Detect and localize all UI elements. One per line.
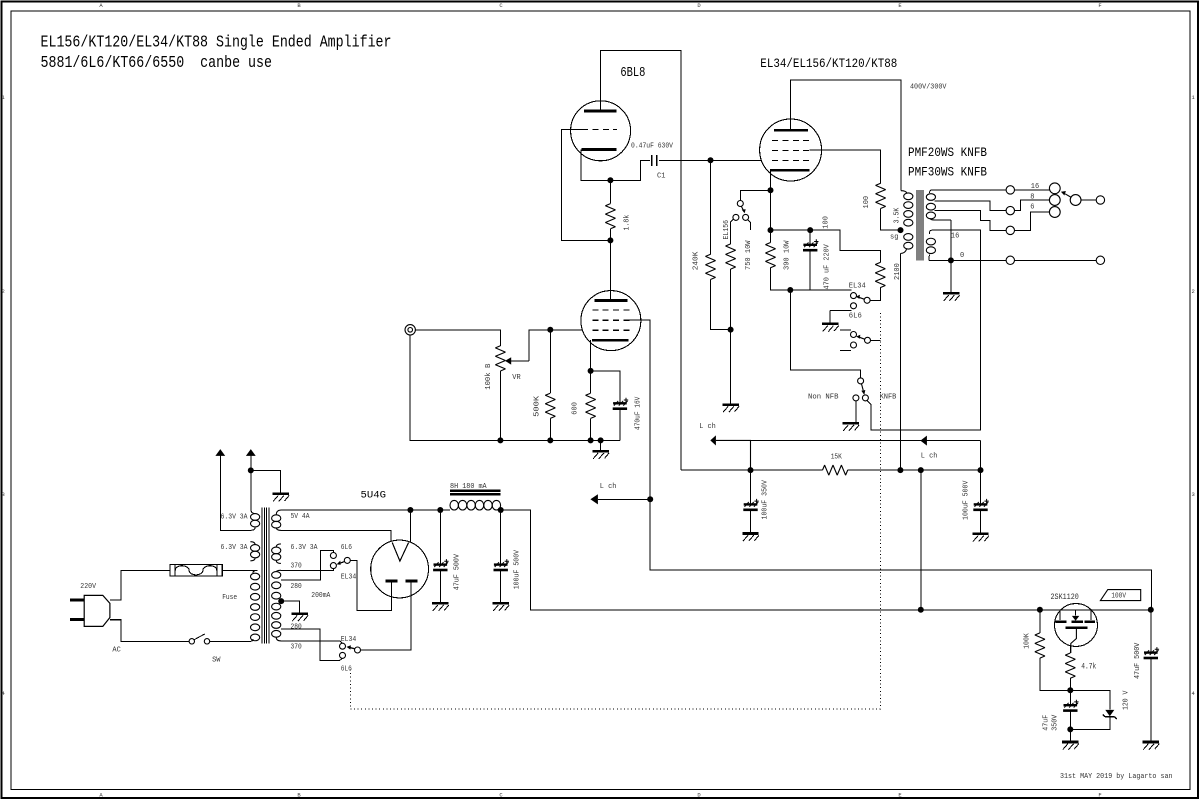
svg-text:47uF 500V: 47uF 500V xyxy=(1134,642,1142,679)
svg-text:L ch: L ch xyxy=(699,423,716,431)
svg-text:4.7k: 4.7k xyxy=(1081,663,1096,672)
svg-text:AC: AC xyxy=(112,646,121,654)
svg-text:280: 280 xyxy=(291,624,303,632)
svg-text:5V 4A: 5V 4A xyxy=(291,513,310,521)
svg-text:0: 0 xyxy=(960,252,965,260)
svg-text:2: 2 xyxy=(2,288,5,295)
svg-text:470uF 16V: 470uF 16V xyxy=(635,396,643,430)
svg-text:100uF 500V: 100uF 500V xyxy=(962,480,970,520)
svg-text:6: 6 xyxy=(1030,203,1035,211)
svg-text:C: C xyxy=(499,2,503,9)
svg-text:280: 280 xyxy=(291,583,303,591)
svg-text:350V: 350V xyxy=(1052,714,1060,730)
svg-text:16: 16 xyxy=(951,232,960,240)
svg-text:Non NFB: Non NFB xyxy=(808,394,839,402)
svg-text:100uF 350V: 100uF 350V xyxy=(762,480,770,520)
svg-text:EL156/KT120/EL34/KT88 Single E: EL156/KT120/EL34/KT88 Single Ended Ampli… xyxy=(41,34,392,53)
svg-text:SW: SW xyxy=(212,657,221,665)
svg-text:Fuse: Fuse xyxy=(222,594,237,602)
svg-text:1: 1 xyxy=(1192,94,1196,101)
svg-text:3.5K: 3.5K xyxy=(894,207,902,223)
svg-text:240K: 240K xyxy=(692,251,700,270)
svg-text:0.47uF 630V: 0.47uF 630V xyxy=(631,142,673,150)
svg-text:47uF 500V: 47uF 500V xyxy=(454,554,462,591)
svg-text:15K: 15K xyxy=(831,453,843,461)
svg-text:PMF20WS KNFB: PMF20WS KNFB xyxy=(908,145,987,160)
svg-text:370: 370 xyxy=(291,643,303,651)
svg-text:C1: C1 xyxy=(657,172,666,180)
svg-text:600: 600 xyxy=(571,402,579,415)
svg-text:sg: sg xyxy=(890,234,898,242)
svg-text:200mA: 200mA xyxy=(311,592,330,600)
svg-text:100: 100 xyxy=(863,195,871,208)
svg-text:500K: 500K xyxy=(533,395,541,417)
svg-text:220V: 220V xyxy=(80,583,96,591)
svg-text:A: A xyxy=(99,2,103,9)
svg-text:5U4G: 5U4G xyxy=(361,490,387,502)
svg-text:L ch: L ch xyxy=(921,452,938,460)
svg-text:2SK1120: 2SK1120 xyxy=(1051,592,1079,602)
svg-text:4: 4 xyxy=(1192,690,1196,697)
svg-text:6L6: 6L6 xyxy=(849,313,862,321)
svg-text:E: E xyxy=(898,2,902,9)
svg-text:100K: 100K xyxy=(1023,633,1031,649)
svg-text:6BL8: 6BL8 xyxy=(620,66,645,81)
svg-text:400V/300V: 400V/300V xyxy=(910,84,947,92)
svg-text:100uF 500V: 100uF 500V xyxy=(514,549,522,589)
svg-text:31st MAY 2019 by Lagarto san: 31st MAY 2019 by Lagarto san xyxy=(1060,773,1173,781)
svg-text:F: F xyxy=(1098,2,1101,9)
svg-text:100V: 100V xyxy=(1111,593,1126,601)
svg-text:VR: VR xyxy=(512,374,521,382)
svg-text:2: 2 xyxy=(1192,288,1195,295)
svg-text:4: 4 xyxy=(2,690,6,697)
svg-text:EL34/EL156/KT120/KT88: EL34/EL156/KT120/KT88 xyxy=(760,56,897,71)
svg-text:47uF: 47uF xyxy=(1043,715,1051,731)
svg-text:100k B: 100k B xyxy=(485,363,493,390)
svg-text:120 V: 120 V xyxy=(1123,690,1131,710)
svg-text:3: 3 xyxy=(1192,491,1195,498)
svg-text:D: D xyxy=(697,2,701,9)
svg-text:750 10W: 750 10W xyxy=(745,240,753,270)
svg-text:6L6: 6L6 xyxy=(341,665,353,673)
svg-text:KNFB: KNFB xyxy=(880,394,897,402)
svg-text:1: 1 xyxy=(2,94,6,101)
svg-text:100: 100 xyxy=(823,216,831,229)
svg-text:L ch: L ch xyxy=(600,483,617,491)
svg-text:390 10W: 390 10W xyxy=(784,240,792,270)
svg-text:6.3V 3A: 6.3V 3A xyxy=(221,514,248,522)
svg-text:F: F xyxy=(1098,792,1101,799)
svg-text:8H 180 mA: 8H 180 mA xyxy=(450,483,487,491)
svg-text:EL156: EL156 xyxy=(723,219,731,239)
svg-text:6.3V 3A: 6.3V 3A xyxy=(291,544,318,552)
svg-text:EL34: EL34 xyxy=(341,573,357,581)
svg-text:3: 3 xyxy=(2,491,5,498)
svg-text:6L6: 6L6 xyxy=(341,544,353,552)
svg-text:5881/6L6/KT66/6550 canbe use: 5881/6L6/KT66/6550 canbe use xyxy=(41,54,273,73)
svg-text:EL34: EL34 xyxy=(341,636,357,644)
svg-text:2100: 2100 xyxy=(894,263,902,280)
svg-text:8: 8 xyxy=(1030,194,1034,202)
svg-text:PMF30WS KNFB: PMF30WS KNFB xyxy=(908,165,987,180)
svg-text:1.8k: 1.8k xyxy=(624,214,632,230)
svg-text:6.3V 3A: 6.3V 3A xyxy=(221,544,248,552)
svg-text:EL34: EL34 xyxy=(849,283,866,291)
svg-text:16: 16 xyxy=(1031,183,1040,191)
svg-text:370: 370 xyxy=(291,562,303,570)
svg-text:470 uF 220V: 470 uF 220V xyxy=(824,244,832,290)
svg-text:B: B xyxy=(297,2,301,9)
